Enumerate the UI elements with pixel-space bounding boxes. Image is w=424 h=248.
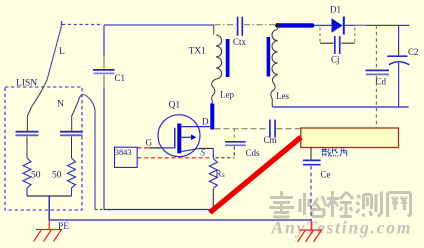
transformer TX1 primary winding Lep <box>213 25 215 35</box>
switch blade L <box>47 26 62 80</box>
dark dashed S to Cds <box>216 157 235 159</box>
dotted joint <box>95 209 104 211</box>
wire Rs bottom <box>212 189 214 202</box>
wire N return vertical <box>94 110 96 210</box>
wire N hop arc <box>78 94 95 110</box>
resistor Rs <box>209 159 217 189</box>
svg-text:Lep: Lep <box>220 90 234 100</box>
red diagonal heatsink path <box>210 137 301 212</box>
capacitor Cd dashed lead top <box>375 25 377 68</box>
source link <box>181 149 199 152</box>
wire bar to D1 <box>314 24 331 26</box>
gate wire solid <box>149 147 162 149</box>
svg-text:TX1: TX1 <box>189 47 207 57</box>
wire N top <box>72 102 78 131</box>
LISN dashed box <box>5 87 82 210</box>
primary return rail <box>104 209 213 211</box>
secondary top thick bar <box>276 23 315 27</box>
core bar secondary <box>267 37 271 77</box>
capacitor Cd <box>366 69 390 71</box>
drain thick bar <box>210 104 214 130</box>
svg-text:3843: 3843 <box>115 148 132 157</box>
capacitor Cj loop <box>320 28 355 55</box>
watermark 峪 <box>300 193 326 217</box>
wire D1 to C2 <box>345 24 410 26</box>
svg-text:N: N <box>57 100 64 110</box>
IC 3843 box <box>115 147 138 167</box>
top rail <box>104 24 214 26</box>
capacitor Ce lead <box>310 148 312 160</box>
drain dashed line to heatsink <box>215 128 301 130</box>
dash-dot line Ctx left <box>215 24 237 26</box>
svg-text:Cj: Cj <box>331 55 340 65</box>
watermark 网 <box>388 193 411 218</box>
junction dot <box>275 23 280 28</box>
wire C1 down <box>103 88 105 210</box>
drain link <box>181 126 210 128</box>
capacitor Cm <box>270 120 275 138</box>
svg-text:L: L <box>59 47 65 57</box>
wire Lep bottom squiggle <box>212 79 216 104</box>
diode D1 <box>332 17 344 35</box>
gate wire: red dash from 3843 <box>138 147 149 149</box>
heatsink box <box>301 128 399 148</box>
svg-text:Ctx: Ctx <box>233 37 247 47</box>
resistor 50 (N) <box>68 158 76 196</box>
svg-text:Ce: Ce <box>321 170 331 180</box>
svg-text:Cd: Cd <box>376 77 387 87</box>
watermark 测 <box>356 192 382 217</box>
Cds dashed lead bottom <box>233 147 235 158</box>
capacitor N-branch <box>60 132 83 158</box>
capacitor C2 (polarized) <box>387 55 407 57</box>
dashed lead to heatsink <box>375 108 377 128</box>
transformer secondary winding Les <box>277 26 279 30</box>
watermark 检 <box>327 191 353 217</box>
wire C2 top <box>398 25 400 46</box>
svg-text:S: S <box>201 148 206 158</box>
switch terminal <box>61 21 63 26</box>
secondary bottom rail <box>273 106 409 108</box>
Ce dashed lead bottom <box>310 166 312 220</box>
svg-text:Cm: Cm <box>264 135 277 145</box>
wire C2 bottom <box>398 63 400 107</box>
switch dashed link <box>62 24 100 26</box>
resistor 50 (L) <box>23 158 31 196</box>
svg-text:Q1: Q1 <box>169 101 181 111</box>
svg-text:C2: C2 <box>408 47 419 57</box>
dash-dot line Ctx right <box>244 24 276 26</box>
wire C1 top <box>103 26 105 57</box>
ground right (red) <box>298 220 323 243</box>
svg-text:50: 50 <box>31 171 41 181</box>
svg-text:s: s <box>222 171 225 179</box>
svg-text:D1: D1 <box>330 5 341 15</box>
MOSFET Q1 circle <box>158 115 200 157</box>
capacitor Ce <box>303 159 321 161</box>
wire to PE <box>48 196 50 220</box>
svg-text:PE: PE <box>58 222 69 232</box>
watermark 嘉 <box>269 191 294 217</box>
svg-text:D: D <box>202 117 209 127</box>
capacitor Cds <box>225 141 246 143</box>
wire Les bottom squiggle <box>271 75 278 108</box>
svg-text:Les: Les <box>276 91 289 101</box>
capacitor L-branch <box>16 132 39 158</box>
svg-text:G: G <box>146 138 153 148</box>
svg-text:50: 50 <box>52 171 62 181</box>
capacitor Ctx <box>238 17 243 36</box>
capacitor C1 <box>93 56 115 88</box>
capacitor Cds dashed lead <box>233 129 235 141</box>
wire LISN bottom join <box>27 195 72 197</box>
PE rail <box>49 219 311 221</box>
svg-text:LISN: LISN <box>16 79 37 89</box>
ground PE (red) <box>34 220 63 242</box>
svg-text:R: R <box>216 169 222 179</box>
capacitor Cd dashed lead bottom <box>375 76 377 106</box>
core bar primary <box>226 39 230 77</box>
body arrow <box>181 136 191 138</box>
CS red dashed line <box>138 157 212 159</box>
wire L down into LISN <box>27 80 47 131</box>
gate bar <box>174 128 176 148</box>
label 散热片 (glyph mimic) <box>322 148 347 156</box>
svg-text:C1: C1 <box>115 73 126 83</box>
svg-text:Cds: Cds <box>246 148 261 158</box>
channel bar <box>177 124 181 154</box>
wire S to Rs <box>212 148 214 158</box>
